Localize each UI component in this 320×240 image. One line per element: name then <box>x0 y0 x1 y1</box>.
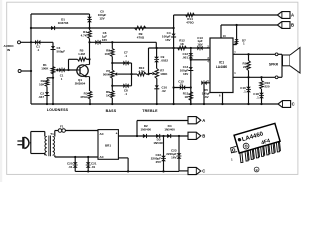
speaker terminal + <box>275 53 278 56</box>
svg-text:1: 1 <box>234 71 236 75</box>
svg-text:1N5400: 1N5400 <box>153 141 164 145</box>
wire <box>204 82 210 84</box>
node <box>46 103 48 105</box>
potentiometer R1 (loudness) <box>51 67 55 75</box>
node <box>172 27 174 29</box>
svg-text:500K: 500K <box>103 73 111 77</box>
wire <box>65 130 98 132</box>
resistor R5 1.2M feedback <box>68 59 70 70</box>
node <box>178 135 180 137</box>
connector C <box>278 101 291 108</box>
svg-text:IN: IN <box>7 48 11 52</box>
IC package back pins <box>246 147 249 160</box>
svg-text:SPKR: SPKR <box>269 63 279 67</box>
wire <box>31 153 45 155</box>
node <box>235 24 237 26</box>
capacitor C2 <box>45 95 50 97</box>
wire <box>190 48 192 104</box>
node <box>130 73 132 75</box>
capacitor C8 <box>123 83 125 88</box>
svg-text:1.2M: 1.2M <box>78 52 85 56</box>
svg-text:.1: .1 <box>256 95 259 99</box>
svg-text:BR1: BR1 <box>105 144 111 148</box>
wire (ground rail) <box>31 103 278 105</box>
IC package tab <box>231 146 238 153</box>
capacitor C22 <box>163 136 165 171</box>
resistor R8 <box>111 42 113 48</box>
node <box>203 103 205 105</box>
transistor Q1 <box>77 65 88 76</box>
capacitor C15 <box>180 85 182 90</box>
capacitor C23 <box>178 136 180 171</box>
wire <box>52 42 54 104</box>
svg-text:16V: 16V <box>197 43 202 47</box>
node (tap) <box>52 77 54 79</box>
capacitor C3 <box>51 49 56 51</box>
svg-text:.01: .01 <box>179 83 183 87</box>
svg-text:1N5400: 1N5400 <box>164 127 175 131</box>
wire <box>132 73 138 75</box>
wire (line B) <box>221 24 277 26</box>
border frame <box>7 2 298 174</box>
wire (collector) <box>89 42 91 64</box>
capacitor C10 <box>154 88 159 90</box>
wire <box>59 69 77 71</box>
node <box>52 103 54 105</box>
svg-text:10K: 10K <box>39 82 45 86</box>
node <box>127 170 129 172</box>
svg-text:B: B <box>256 168 258 172</box>
wire (line A) <box>174 14 278 16</box>
transformer T1 primary <box>45 137 47 156</box>
svg-text:2N3904: 2N3904 <box>75 82 86 86</box>
svg-text:4.7K: 4.7K <box>81 34 88 38</box>
connector A (supply) <box>188 117 201 124</box>
wire <box>233 44 237 46</box>
input jack terminal (hot) <box>18 41 21 44</box>
node <box>111 41 113 43</box>
svg-text:7: 7 <box>234 50 236 54</box>
resistor R2 <box>45 79 49 87</box>
node <box>247 76 249 78</box>
node <box>162 135 164 137</box>
svg-text:C: C <box>292 102 295 107</box>
svg-text:B: B <box>202 133 205 138</box>
svg-text:16V: 16V <box>171 156 176 160</box>
resistor R4 <box>89 28 91 30</box>
wire <box>89 99 91 104</box>
node <box>87 156 89 158</box>
node <box>67 69 69 71</box>
svg-text:3: 3 <box>207 56 209 60</box>
resistor R3 <box>88 91 92 99</box>
connector C (supply) <box>188 167 201 174</box>
wire <box>233 76 275 78</box>
wire (bass box bottom) <box>112 85 131 87</box>
wire <box>31 131 45 133</box>
svg-text:470Ω: 470Ω <box>137 36 145 40</box>
node <box>247 53 249 55</box>
diode D4 <box>167 134 171 138</box>
node <box>221 103 223 105</box>
capacitor C9 <box>156 48 158 57</box>
speaker SPKR <box>278 53 282 55</box>
wire <box>47 77 53 79</box>
potentiometer P2 (bass) <box>111 63 113 70</box>
wire <box>31 13 90 15</box>
svg-text:.1: .1 <box>125 92 128 96</box>
wire <box>174 87 191 89</box>
capacitor C13 <box>197 46 199 51</box>
wire <box>46 87 48 105</box>
svg-text:1K: 1K <box>180 42 185 46</box>
svg-text:.01: .01 <box>68 165 73 169</box>
node <box>89 103 91 105</box>
svg-text:12V: 12V <box>99 17 104 21</box>
svg-text:F1: F1 <box>60 124 64 128</box>
wire <box>173 15 175 104</box>
svg-text:BASS: BASS <box>106 109 117 113</box>
svg-text:1K: 1K <box>184 95 189 99</box>
resistor R16 <box>261 77 263 80</box>
svg-text:.1: .1 <box>37 48 40 52</box>
capacitor C5 <box>87 17 92 19</box>
svg-text:100K: 100K <box>160 72 168 76</box>
node <box>87 170 89 172</box>
wire <box>53 136 55 138</box>
node <box>190 47 192 49</box>
svg-text:470Ω: 470Ω <box>186 20 194 24</box>
wire <box>31 27 174 29</box>
connector B <box>277 22 290 29</box>
wire <box>21 41 54 43</box>
svg-text:T1: T1 <box>50 132 54 136</box>
resistor R10 <box>137 72 146 76</box>
IC package LA4460 body <box>234 123 280 153</box>
connector A <box>277 12 290 19</box>
svg-text:LA4460: LA4460 <box>216 65 228 69</box>
wire <box>30 132 32 154</box>
capacitor C1 <box>35 40 37 45</box>
svg-text:10: 10 <box>223 34 226 38</box>
node <box>88 58 90 60</box>
node <box>74 156 76 158</box>
resistor R14 <box>186 13 195 17</box>
node <box>162 170 164 172</box>
capacitor C14 <box>188 70 193 72</box>
svg-text:16V: 16V <box>203 95 208 99</box>
node <box>190 86 192 88</box>
node <box>111 85 113 87</box>
wire <box>54 155 56 157</box>
wiper of R7 <box>149 73 153 75</box>
node <box>30 41 32 43</box>
node <box>156 103 158 105</box>
wire <box>155 42 157 48</box>
node <box>111 103 113 105</box>
svg-text:4.7K: 4.7K <box>138 69 145 73</box>
node <box>88 41 90 43</box>
diode D3 <box>156 134 160 138</box>
node <box>247 103 249 105</box>
capacitor C4 <box>171 36 176 38</box>
svg-text:500µF: 500µF <box>57 50 66 54</box>
wiper of P2 <box>114 72 117 75</box>
node <box>190 103 192 105</box>
diode D2 <box>143 134 147 138</box>
svg-text:16V: 16V <box>183 72 188 76</box>
resistor R9 <box>135 26 147 30</box>
capacitor C7 <box>123 61 125 66</box>
IC package front pins <box>240 151 243 162</box>
wire <box>89 14 91 28</box>
connector B (supply) <box>188 132 201 139</box>
wire (- out) <box>118 157 128 159</box>
wire (bass box top) <box>112 62 131 64</box>
diode D1 <box>51 26 55 30</box>
capacitor D7 <box>236 25 238 45</box>
wire (emitter) <box>89 77 91 91</box>
capacitor C16 <box>248 77 250 104</box>
wire <box>30 14 32 104</box>
wire <box>179 170 188 172</box>
transformer T1 secondary <box>53 137 55 156</box>
svg-text:LOUDNESS: LOUDNESS <box>47 108 69 112</box>
svg-text:.1: .1 <box>125 54 128 58</box>
node <box>260 103 262 105</box>
svg-text:470Ω: 470Ω <box>80 95 88 99</box>
op-amp IC1 LA4460 <box>210 38 233 93</box>
node <box>30 27 32 29</box>
fuse F1 <box>58 129 62 133</box>
wire (+ out) <box>118 135 137 137</box>
input jack terminal (gnd) <box>18 70 21 73</box>
node <box>172 103 174 105</box>
svg-text:10K: 10K <box>104 52 110 56</box>
svg-text:6: 6 <box>219 93 221 97</box>
svg-text:16V: 16V <box>165 38 170 42</box>
potentiometer R7 (treble) <box>155 69 159 79</box>
transformer T1 core <box>48 136 50 157</box>
wire <box>21 70 31 72</box>
node <box>155 47 157 49</box>
svg-text:.001: .001 <box>182 56 188 60</box>
node <box>88 27 90 29</box>
capacitor D5 <box>201 80 203 85</box>
node <box>111 62 113 64</box>
node <box>190 59 192 61</box>
wire <box>90 41 157 43</box>
svg-text:.01: .01 <box>91 165 96 169</box>
svg-text:.047: .047 <box>38 95 44 99</box>
bridge rectifier BR1 <box>98 130 118 160</box>
capacitor C4 (wiper coupling) <box>59 68 61 73</box>
wire <box>146 73 149 75</box>
svg-text:TREBLE: TREBLE <box>142 109 158 113</box>
svg-text:1N5400: 1N5400 <box>141 127 152 131</box>
AC plug <box>17 140 22 142</box>
wiper of R1 <box>55 68 58 71</box>
wire (to A) <box>136 121 138 137</box>
svg-text:A: A <box>291 13 294 18</box>
svg-text:25V: 25V <box>156 160 161 164</box>
wire <box>137 135 188 137</box>
svg-text:1N4736: 1N4736 <box>58 21 69 25</box>
wire (treble left vert) <box>148 48 150 74</box>
IC package circled B <box>254 167 259 172</box>
wire (bass box right) <box>131 63 133 86</box>
wire <box>29 142 32 144</box>
svg-text:.02: .02 <box>162 89 167 93</box>
svg-text:220: 220 <box>243 65 248 69</box>
svg-text:16V: 16V <box>102 38 107 42</box>
svg-text:.1: .1 <box>243 89 246 93</box>
resistor R15 <box>248 54 250 60</box>
capacitor C20 <box>74 157 76 171</box>
svg-text:B: B <box>291 23 294 28</box>
svg-text:100K: 100K <box>41 67 49 71</box>
wire <box>54 131 56 137</box>
node <box>172 86 174 88</box>
resistor R12 <box>178 46 187 50</box>
svg-text:220: 220 <box>265 85 270 89</box>
svg-text:.0022: .0022 <box>161 59 169 63</box>
capacitor C18 <box>259 93 264 95</box>
wire (bottom bus) <box>75 170 179 172</box>
capacitor C6 <box>95 40 97 45</box>
node <box>172 47 174 49</box>
svg-text:A: A <box>202 118 205 123</box>
wire (y48 line) <box>149 47 211 49</box>
resistor R13 <box>189 92 193 101</box>
wire (to pin 3) <box>191 59 210 61</box>
node <box>136 135 138 137</box>
svg-text:1: 1 <box>231 158 233 162</box>
capacitor C21 <box>87 157 89 171</box>
resistor R6 <box>111 91 115 99</box>
svg-text:C: C <box>202 169 205 174</box>
node <box>260 76 262 78</box>
capacitor C12 <box>188 53 193 55</box>
svg-text:+: + <box>116 132 118 136</box>
node (input gnd) <box>30 70 32 72</box>
wire (pin7 line) <box>233 53 275 55</box>
speaker terminal - <box>275 76 278 79</box>
node <box>147 73 149 75</box>
wire <box>222 93 224 105</box>
